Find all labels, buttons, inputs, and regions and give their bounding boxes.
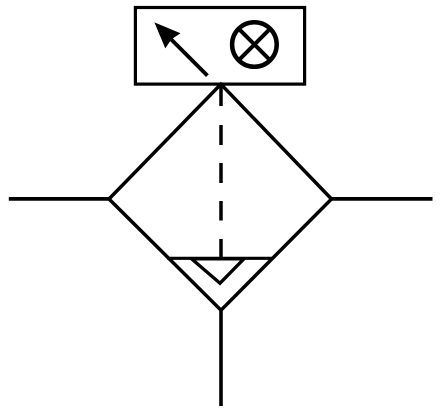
- indicator box: [135, 8, 304, 85]
- indicator lamp circle: [232, 22, 277, 67]
- left port wire: [9, 197, 110, 201]
- indicator lamp X stroke 1: [238, 28, 272, 62]
- arrow shaft: [171, 39, 207, 75]
- bottom drain wire: [219, 310, 223, 407]
- condensate chord: [167, 257, 273, 260]
- drain triangle: [192, 259, 245, 283]
- filter body diamond: [109, 84, 332, 310]
- arrow head: [154, 22, 180, 48]
- filter element dashed line: [219, 85, 223, 258]
- right port wire: [331, 197, 433, 201]
- indicator lamp X stroke 2: [238, 28, 272, 62]
